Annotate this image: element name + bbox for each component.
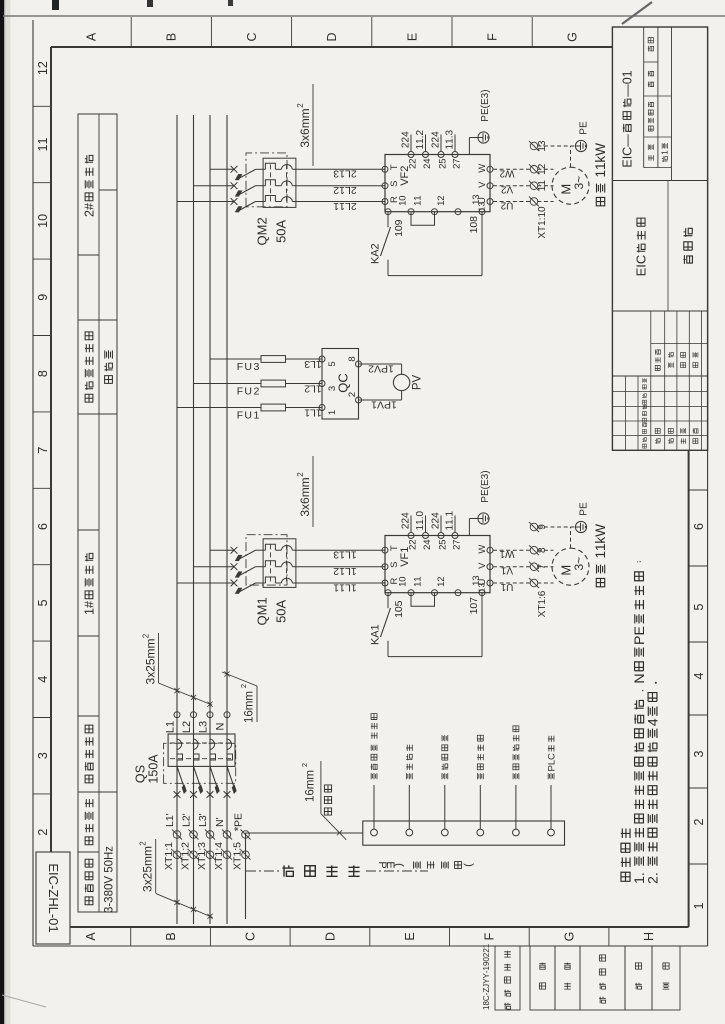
QC bottom terminals 2,8 xyxy=(356,397,362,403)
grid band left: row letters A-H xyxy=(84,932,98,941)
svg-text:4: 4 xyxy=(213,842,225,848)
svg-text:4: 4 xyxy=(646,718,662,726)
technical note line 2 xyxy=(646,682,662,884)
svg-text:9: 9 xyxy=(393,219,405,225)
svg-text:2: 2 xyxy=(82,210,96,217)
svg-text:A: A xyxy=(146,754,160,763)
VF2 right control terminals 22 24 25 27 xyxy=(408,152,414,158)
wire to QC xyxy=(286,407,323,409)
svg-text:H: H xyxy=(104,852,116,860)
label VF1 xyxy=(399,547,411,567)
svg-text:m: m xyxy=(144,649,158,659)
grid band top: column numbers 1-12 xyxy=(36,829,50,836)
svg-text:#: # xyxy=(82,601,96,608)
svg-text:3: 3 xyxy=(333,549,339,561)
terminal strip XT1:6 screw terminals xyxy=(530,579,538,587)
title block outline xyxy=(612,27,707,450)
svg-text:.: . xyxy=(646,872,662,876)
zone label 2#电机控制 xyxy=(82,155,96,217)
svg-text:4: 4 xyxy=(431,131,442,137)
asterisk near XT1:5 xyxy=(232,826,246,831)
label L3 xyxy=(197,721,209,733)
svg-text:4: 4 xyxy=(422,539,433,544)
margin block 签字 xyxy=(625,946,652,1010)
svg-text:0: 0 xyxy=(397,195,408,200)
function zone table outline xyxy=(78,114,117,912)
label XT1:4 xyxy=(213,842,225,870)
title block center horizontals xyxy=(650,311,652,376)
wire xyxy=(373,785,375,829)
title block center verticals xyxy=(612,310,707,312)
label XT1:3 xyxy=(196,842,208,870)
title text EIC—主回路—01 xyxy=(620,70,634,167)
svg-text:2: 2 xyxy=(500,184,506,195)
wire 108 loop to terminal 13 xyxy=(388,275,482,277)
svg-text:7: 7 xyxy=(468,597,480,603)
wire drop 1L1 xyxy=(177,407,261,409)
svg-text:1: 1 xyxy=(369,624,381,630)
label PE xyxy=(233,813,245,827)
svg-text:1: 1 xyxy=(412,195,423,200)
label XT1:6 xyxy=(537,590,548,617)
wire PE drop to ground bar xyxy=(246,832,363,834)
svg-text:E: E xyxy=(632,626,648,635)
scan artifact: paper edge line right side xyxy=(3,15,725,17)
outer border xyxy=(32,20,34,946)
breaker QM2 blades with release arrows xyxy=(239,202,256,211)
wire to QC xyxy=(286,358,323,360)
relay contact KA1 wire 105 xyxy=(387,593,389,609)
zone table column dividers row2 xyxy=(99,791,117,793)
wire numbers 2L11, 2L12, 2L13 (vertical) xyxy=(333,200,357,212)
svg-text:m: m xyxy=(305,770,317,780)
svg-text:5: 5 xyxy=(232,842,244,848)
label QM2 xyxy=(255,217,270,245)
margin note 18C-ZJYY-190221 xyxy=(482,943,491,1010)
svg-text:m: m xyxy=(298,118,312,128)
svg-text:': ' xyxy=(181,813,193,815)
ground bar terminal 4 xyxy=(477,829,484,836)
label 第1张 xyxy=(660,143,670,162)
breaker QM2 x-marks xyxy=(231,198,238,205)
breaker QM1 dash-dot enclosure xyxy=(246,535,287,585)
svg-text:2: 2 xyxy=(436,576,447,581)
svg-text:U: U xyxy=(244,410,252,422)
ground bar terminal 5 xyxy=(513,829,520,836)
title block left section horizontals xyxy=(624,376,626,450)
svg-text:1: 1 xyxy=(304,406,310,418)
svg-text:m: m xyxy=(298,108,312,118)
svg-text:': ' xyxy=(214,817,226,819)
wires QM2 to VF2 xyxy=(296,201,385,203)
svg-text:~: ~ xyxy=(572,176,586,183)
label XT1:2 xyxy=(180,842,192,870)
stub wire numbers 224, 11.2, 224, 11.3 xyxy=(401,131,412,148)
svg-text:7: 7 xyxy=(36,447,50,454)
VF1 output terminals U V W xyxy=(487,580,493,586)
svg-text:U: U xyxy=(506,200,513,211)
svg-text:P: P xyxy=(233,820,245,827)
svg-text:A: A xyxy=(274,220,289,229)
label 接主电机 变频器 xyxy=(371,714,377,780)
label 单机件数 xyxy=(648,102,653,131)
svg-text:W: W xyxy=(477,545,488,554)
svg-text:(: ( xyxy=(393,863,405,867)
svg-text:3: 3 xyxy=(333,168,339,180)
svg-text:*: * xyxy=(232,826,246,831)
svg-text:D: D xyxy=(325,32,339,41)
svg-text:8: 8 xyxy=(347,356,358,361)
svg-text:2: 2 xyxy=(296,103,305,108)
svg-text:1: 1 xyxy=(36,221,50,228)
wire xyxy=(550,785,552,829)
label 50A xyxy=(274,600,289,623)
zone label 电源进线 xyxy=(85,859,93,904)
svg-text:0: 0 xyxy=(537,206,548,212)
svg-text:2: 2 xyxy=(181,721,193,727)
VF2 input terminals R S T xyxy=(382,199,388,205)
wire drop 1L3 xyxy=(210,358,261,360)
svg-text:6: 6 xyxy=(692,523,706,530)
motor PE lead (dashed) and earth symbol xyxy=(537,145,575,147)
svg-text:8: 8 xyxy=(36,370,50,377)
motor leads to motor (dashed) xyxy=(537,201,553,203)
title block right horizontals xyxy=(643,27,645,168)
svg-text:E: E xyxy=(579,121,590,128)
svg-text:2: 2 xyxy=(36,61,50,68)
svg-text:W: W xyxy=(593,143,608,156)
motor M 3~ xyxy=(552,167,589,204)
signature labels 标准化 工艺 审定 日期 xyxy=(655,349,660,370)
svg-text:3: 3 xyxy=(36,752,50,759)
cable callout 3x25mm2 after QS xyxy=(144,639,158,685)
svg-text:X: X xyxy=(196,863,208,870)
svg-text:m: m xyxy=(298,477,312,487)
svg-text:): ) xyxy=(480,89,491,92)
label QM1 xyxy=(255,597,270,625)
svg-text:3: 3 xyxy=(197,721,209,727)
wire QC-8 to PV, number 1PV2 xyxy=(359,363,402,365)
svg-text:1: 1 xyxy=(327,410,338,415)
svg-text:E: E xyxy=(233,813,245,820)
svg-text:1: 1 xyxy=(620,70,634,77)
QS pole blades and x-marks xyxy=(174,791,181,798)
svg-text:3: 3 xyxy=(692,750,706,757)
motor M 3~ xyxy=(552,548,589,585)
svg-text:N: N xyxy=(214,722,226,730)
svg-text:2: 2 xyxy=(36,829,50,836)
svg-text:m: m xyxy=(141,846,155,856)
svg-text:1: 1 xyxy=(593,544,608,552)
svg-text:X: X xyxy=(232,863,244,870)
svg-text:Z: Z xyxy=(46,889,61,897)
svg-text:1: 1 xyxy=(500,565,506,576)
svg-text:N: N xyxy=(214,819,226,827)
svg-text:4: 4 xyxy=(431,512,442,518)
svg-text:Q: Q xyxy=(133,773,147,783)
zone label 电柜接地 xyxy=(85,799,93,845)
svg-text:2: 2 xyxy=(333,565,339,577)
svg-text:V: V xyxy=(104,876,116,884)
margin block 借用图登记 xyxy=(495,946,520,1010)
svg-text:2: 2 xyxy=(300,763,309,767)
svg-text:V: V xyxy=(477,562,488,569)
breaker QM2 pole drops from buses xyxy=(177,201,234,203)
label 1L1 (vertical) xyxy=(304,406,322,418)
zone label 电压转换开关 xyxy=(85,332,93,402)
svg-text:1: 1 xyxy=(36,144,50,151)
svg-text:H: H xyxy=(642,932,656,941)
signature labels 设计 制图 校对 审核 xyxy=(655,428,660,443)
svg-text:1: 1 xyxy=(482,943,491,948)
svg-text:H: H xyxy=(46,897,61,906)
svg-text:m: m xyxy=(298,487,312,497)
breaker QM1 thermal/magnetic unit box xyxy=(263,539,296,588)
breaker QM1 linkage dashed xyxy=(270,543,272,582)
svg-text:E: E xyxy=(579,502,590,509)
svg-text:5: 5 xyxy=(437,158,448,163)
svg-text:1: 1 xyxy=(692,902,706,909)
svg-text:F: F xyxy=(486,33,500,41)
svg-text:3: 3 xyxy=(253,361,259,373)
svg-text:2: 2 xyxy=(500,200,506,211)
svg-text:2: 2 xyxy=(415,129,426,135)
svg-text:2: 2 xyxy=(255,217,270,224)
svg-text:5: 5 xyxy=(692,603,706,610)
svg-text:C: C xyxy=(620,147,634,156)
VF2 jumper terminals 11-12 xyxy=(411,212,435,226)
breaker QM2 pole elements xyxy=(265,196,275,202)
svg-text:G: G xyxy=(566,32,580,42)
label 150A xyxy=(146,754,160,784)
svg-text:—: — xyxy=(620,134,634,147)
label 设备界限 (vertical) xyxy=(282,865,293,876)
svg-text:0: 0 xyxy=(46,918,61,925)
svg-text:): ) xyxy=(463,863,475,867)
svg-text:3: 3 xyxy=(537,140,548,146)
bus L2 xyxy=(193,115,195,924)
margin block 底图编号 xyxy=(580,946,625,1010)
svg-text:U: U xyxy=(244,386,252,398)
svg-text:—: — xyxy=(620,84,634,97)
main switch QS body xyxy=(168,734,235,766)
svg-text:2: 2 xyxy=(138,841,147,846)
svg-text:C: C xyxy=(244,932,258,941)
VFD VF1 box xyxy=(385,536,490,593)
label KA1 xyxy=(369,624,381,645)
breaker QM2 linkage dashed xyxy=(270,162,272,201)
svg-text:1: 1 xyxy=(660,150,670,155)
wire PE incoming xyxy=(245,833,247,919)
svg-text:6: 6 xyxy=(537,590,548,596)
svg-text:3: 3 xyxy=(477,202,487,207)
svg-text:z: z xyxy=(104,846,116,852)
label 接出料电机 xyxy=(442,735,448,779)
label L1' xyxy=(164,813,176,827)
svg-text:P: P xyxy=(381,362,388,374)
svg-text:m: m xyxy=(244,701,256,711)
title block left section verticals xyxy=(612,435,707,437)
svg-text:~: ~ xyxy=(572,557,586,564)
label 电机 11kW xyxy=(593,143,608,206)
scan artifact: dark marks beyond right paper edge xyxy=(52,0,59,10)
wires QM1 to VF1 xyxy=(296,582,385,584)
svg-text:5: 5 xyxy=(146,770,160,777)
svg-text:F: F xyxy=(237,361,243,373)
label 接PLC模块 xyxy=(546,736,557,780)
bus N xyxy=(226,115,228,924)
label 接电控柜体 xyxy=(477,735,483,779)
label L2 xyxy=(181,721,193,733)
svg-text:L: L xyxy=(164,727,176,733)
svg-text:Q: Q xyxy=(255,615,270,625)
svg-text:F: F xyxy=(237,410,243,422)
title block right verticals xyxy=(644,167,672,169)
ground PE(E3) at VF2 xyxy=(468,138,470,155)
svg-text:2: 2 xyxy=(537,163,548,169)
label 1L3 (vertical) xyxy=(304,358,322,370)
QC top terminals 1,3,5 xyxy=(319,405,325,411)
VF2 left control terminals xyxy=(385,209,391,215)
svg-text:2: 2 xyxy=(646,876,662,884)
svg-text:#: # xyxy=(82,203,96,210)
motor leads U2, V2, W2 (dashed) xyxy=(493,201,531,203)
svg-text:N: N xyxy=(632,673,648,683)
zone label 3-380V 50Hz xyxy=(104,846,116,913)
margin block 描校 xyxy=(555,946,580,1010)
svg-text:B: B xyxy=(164,932,178,940)
svg-text:2: 2 xyxy=(296,472,305,477)
fuse FU1 xyxy=(261,404,286,411)
svg-text:2: 2 xyxy=(239,684,248,688)
svg-text:m: m xyxy=(244,691,256,701)
breaker QM1 blades with release arrows xyxy=(239,583,256,592)
zone label 电源总开关 xyxy=(85,725,93,783)
svg-text:2: 2 xyxy=(692,818,706,825)
label KA2 xyxy=(369,243,381,264)
svg-text:B: B xyxy=(165,33,179,41)
svg-text:2: 2 xyxy=(436,195,447,200)
svg-text:C: C xyxy=(336,373,351,382)
svg-text:2: 2 xyxy=(333,184,339,196)
label L3' xyxy=(197,813,209,827)
svg-text:1: 1 xyxy=(82,608,96,615)
svg-text:Q: Q xyxy=(336,383,351,393)
margin block 描图 xyxy=(530,946,555,1010)
svg-text:5: 5 xyxy=(274,616,289,623)
fuse FU2 xyxy=(261,380,286,387)
svg-text:0: 0 xyxy=(274,608,289,615)
label N' xyxy=(214,817,226,827)
wire numbers 1L11, 1L12, 1L13 (vertical) xyxy=(333,581,357,593)
QS linkage dashed lines xyxy=(170,758,233,760)
svg-text:1: 1 xyxy=(255,597,270,604)
svg-text:m: m xyxy=(144,639,158,649)
label L1 xyxy=(164,721,176,733)
svg-text:7: 7 xyxy=(451,539,462,544)
svg-text:1: 1 xyxy=(412,576,423,581)
technical notes 技术要求 xyxy=(621,828,630,881)
label N xyxy=(214,722,226,730)
svg-text:X: X xyxy=(213,863,225,870)
label VF2 xyxy=(399,166,411,186)
svg-text:L: L xyxy=(197,727,209,733)
breaker QM1 x-marks xyxy=(231,580,238,587)
VF1 jumper terminals 11-12 xyxy=(411,593,435,607)
svg-text:C: C xyxy=(634,255,649,264)
voltage selector switch QC box xyxy=(322,349,359,420)
svg-text:2: 2 xyxy=(304,382,310,394)
svg-text:2: 2 xyxy=(369,243,381,249)
svg-text:W: W xyxy=(477,164,488,173)
svg-text:M: M xyxy=(255,605,270,616)
svg-text:G: G xyxy=(562,932,576,942)
breaker QM2 thermal/magnetic unit box xyxy=(263,158,296,207)
bus source terminals (open circles) xyxy=(174,712,180,718)
wire xyxy=(408,785,410,829)
svg-text:m: m xyxy=(141,856,155,866)
svg-text:5: 5 xyxy=(274,236,289,243)
bus L1 xyxy=(176,115,178,924)
svg-text:1: 1 xyxy=(445,510,456,516)
svg-text:1: 1 xyxy=(163,842,175,848)
wire 107 loop to terminal 13 xyxy=(388,656,482,658)
VF2 output terminals U V W xyxy=(487,199,493,205)
cable callout 3x6mm2 branch1 xyxy=(298,477,312,516)
svg-text:L: L xyxy=(46,907,61,914)
svg-text:L: L xyxy=(181,727,193,733)
svg-text:2: 2 xyxy=(141,633,150,638)
svg-text:): ) xyxy=(480,470,491,473)
cable callout 3x6mm2 branch2 xyxy=(298,108,312,147)
label L2' xyxy=(181,813,193,827)
fuse FU3 xyxy=(261,356,286,363)
svg-text:C: C xyxy=(546,753,557,760)
motor leads U1, V1, W1 (dashed) xyxy=(493,582,531,584)
svg-text:M: M xyxy=(255,225,270,236)
title block name cell divider xyxy=(667,181,669,312)
svg-text:W: W xyxy=(593,524,608,537)
svg-text:V: V xyxy=(412,375,424,383)
bus L3 xyxy=(209,115,211,924)
svg-text:X: X xyxy=(180,863,192,870)
svg-text:3: 3 xyxy=(477,583,487,588)
svg-text:1: 1 xyxy=(371,398,377,410)
svg-text:5: 5 xyxy=(393,600,405,606)
ground bar terminal 3 xyxy=(441,829,448,836)
VFD VF2 box xyxy=(385,155,490,212)
svg-text:': ' xyxy=(164,813,176,815)
svg-text:2: 2 xyxy=(407,539,418,544)
QS dash-dot enclosure xyxy=(164,743,236,783)
svg-text:E: E xyxy=(405,33,419,41)
motor leads to motor (dashed) xyxy=(537,582,553,584)
svg-text:4: 4 xyxy=(401,131,412,137)
VF1 left control terminals xyxy=(385,590,391,596)
label PV xyxy=(412,375,424,391)
equipment boundary dash-dot line 设备界限 xyxy=(246,870,281,872)
label 接电流互感器 xyxy=(513,726,519,779)
label XT1:5 xyxy=(232,842,244,870)
stub wire numbers 224, 11.0, 224, 11.1 xyxy=(401,512,412,529)
grid band right: row letters A-G xyxy=(85,32,99,41)
svg-text:0: 0 xyxy=(415,510,426,516)
svg-text:D: D xyxy=(323,932,337,941)
svg-text:7: 7 xyxy=(451,158,462,163)
ground bar terminal 2 xyxy=(406,829,413,836)
svg-text:4: 4 xyxy=(36,676,50,683)
svg-text:3: 3 xyxy=(445,129,456,135)
